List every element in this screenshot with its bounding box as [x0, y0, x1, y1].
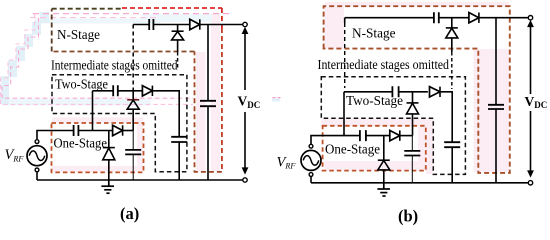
node: bottom output terminal (b) — [528, 181, 532, 185]
diode D2 series (a) — [142, 86, 152, 96]
diode D1 shunt (a) — [103, 131, 115, 181]
wire: dashed omitted-stages input riser x=133 (a) — [132, 25, 134, 92]
pink dashed staircase outer — [1, 14, 194, 105]
Two-Stage black dashed staircase (a) — [52, 75, 187, 172]
wire: dashed input riser (b) — [344, 18, 346, 23]
pink fills (b) — [322, 2, 510, 174]
svg-text:N-Stage: N-Stage — [57, 27, 100, 42]
node: top output terminal (b) — [528, 16, 532, 20]
pink artifact fill band right column inner — [52, 13, 220, 172]
svg-text:One-Stage: One-Stage — [54, 136, 108, 151]
capacitor C2 series (b) — [392, 86, 398, 97]
diode D2 shunt (b) — [407, 92, 419, 136]
N-Stage staircase left dark brown — [51, 9, 53, 52]
diode D-N series (a) — [190, 19, 200, 29]
One-Stage red-orange dashed box (b) — [323, 126, 426, 171]
wire: one-stage row (b) — [311, 136, 390, 145]
diode D-N shunt (a) — [172, 25, 184, 53]
diode D-N series (b) — [469, 13, 479, 23]
ground (a) — [101, 180, 114, 193]
capacitor C-out-2 (b) — [444, 142, 460, 183]
N-Stage staircase right and bottom brown-red — [221, 8, 223, 28]
capacitor C-out-N column (b) — [488, 18, 504, 183]
V-DC measurement arrow (a) — [244, 31, 246, 168]
svg-text:(b): (b) — [398, 207, 418, 226]
N-Stage brown staircase box (a) top-left dark segment — [52, 8, 122, 10]
diode D1 shunt (b) — [378, 136, 390, 183]
capacitor C2 series (a) — [113, 85, 118, 96]
wire: N output to terminal (b) — [479, 17, 528, 19]
capacitor C-N series (b) — [434, 12, 439, 23]
wire: one-stage output (a) — [123, 130, 134, 132]
svg-text:(a): (a) — [120, 204, 139, 223]
wire: riser two-to-one stage (b) — [343, 92, 345, 136]
wire: two-stage output corner (a) — [152, 91, 179, 137]
N-Stage staircase top-right red segment — [122, 7, 222, 9]
wire: N-stage row corner (b) — [345, 17, 469, 19]
node: bottom output terminal (a) — [243, 178, 247, 182]
svg-text:Intermediate stages omitted: Intermediate stages omitted — [51, 57, 178, 72]
wire: dashed stub below N shunt diode (a) — [177, 52, 179, 68]
svg-text:Two-Stage: Two-Stage — [55, 76, 108, 91]
node: top output terminal (a) — [243, 22, 247, 26]
ground (b) — [377, 183, 390, 196]
wire: one-stage output (b) — [400, 135, 413, 137]
wire: one-stage row (a) — [37, 131, 113, 140]
small pink-blue artifact left of figure b — [272, 98, 280, 101]
svg-text:N-Stage: N-Stage — [352, 25, 396, 40]
pink dashed staircase inner — [2, 18, 193, 99]
wire: two-stage row (a) — [93, 90, 143, 92]
wire: N-stage output to terminal (a) — [200, 24, 243, 26]
capacitor C-out-2 (a) — [171, 137, 187, 180]
source V-RF (b) — [301, 144, 321, 183]
N-Stage red-brown staircase box (b) — [324, 6, 510, 173]
capacitor C1 series (a) — [74, 125, 79, 136]
capacitor C-out-1 (a) — [125, 131, 141, 181]
N-Stage staircase inner bottom brown — [52, 51, 195, 53]
wire: dashed stub below N shunt (b) — [451, 52, 453, 89]
capacitor C-out-1 (b) — [404, 136, 420, 183]
Two-Stage black dashed staircase (b) — [321, 77, 465, 175]
diode D2 shunt (a) — [127, 91, 139, 131]
wire: two-stage output corner (b) — [440, 92, 452, 142]
One-Stage red-orange dashed box (a) — [52, 123, 144, 172]
svg-text:One-Stage: One-Stage — [325, 142, 380, 157]
light blue artifact staircase steps — [0, 12, 49, 104]
capacitor C-out-N column (a) — [200, 25, 216, 181]
wire: N-stage row (a) — [133, 24, 190, 26]
source V-RF (a) — [27, 140, 47, 180]
capacitor C-N series (a) — [149, 19, 153, 30]
svg-text:Intermediate stages omitted: Intermediate stages omitted — [318, 57, 450, 72]
diode D1 series (a) — [113, 125, 123, 135]
diode D2 series (b) — [430, 87, 441, 97]
pink dashed line top 1 — [33, 13, 229, 15]
wire: bottom rail (a) — [37, 179, 243, 181]
capacitor C1 series (b) — [360, 130, 366, 141]
svg-text:Two-Stage: Two-Stage — [346, 93, 403, 108]
diode D-N shunt (b) — [446, 18, 458, 52]
V-DC measurement arrow (b) — [530, 24, 532, 171]
wire: two-stage row (b) — [344, 91, 428, 93]
light blue artifact bands — [2, 14, 212, 106]
wire: bottom rail (b) — [311, 182, 528, 184]
wire: two-stage input riser x=92.5 (a) — [92, 91, 94, 131]
diode D1 series (b) — [390, 130, 400, 140]
pink dashed line top 2 — [30, 17, 160, 19]
